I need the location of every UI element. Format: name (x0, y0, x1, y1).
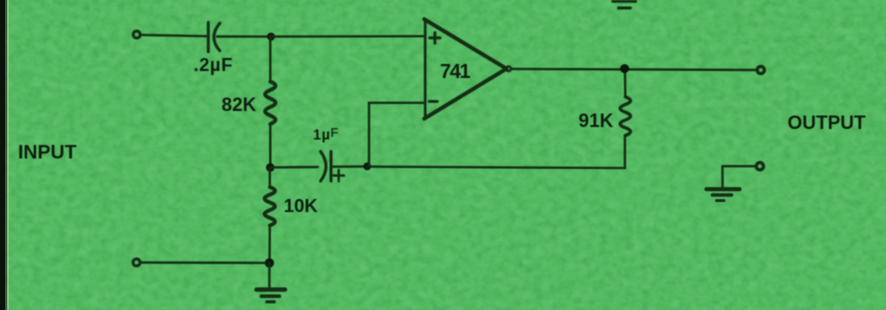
svg-text:.2µF: .2µF (194, 54, 233, 75)
svg-text:10K: 10K (284, 195, 319, 216)
resistor R3 10K (265, 187, 276, 226)
ground symbol GND3 (bottom) (257, 290, 286, 302)
capacitor C1 .2uF (208, 23, 220, 52)
scan edge strip (0, 0, 8, 310)
svg-text:91K: 91K (579, 111, 614, 132)
resistor R1 82K (265, 82, 276, 125)
plus sign (noninverting input) (430, 33, 440, 43)
svg-text:741: 741 (440, 61, 470, 83)
op-amp U1 741 (slant edges) (424, 19, 506, 119)
node B junction dot (266, 163, 275, 172)
capacitor C2 1uF (polarized) (321, 152, 331, 182)
wire op-amp output to output terminal (511, 69, 757, 70)
svg-text:OUTPUT: OUTPUT (788, 113, 867, 134)
ground terminal circle (right) (756, 163, 763, 170)
wire J3 to node E (141, 261, 265, 264)
node D junction dot (620, 64, 629, 73)
minus sign (inverting input) (429, 100, 437, 103)
wire R2 top to node D (624, 69, 627, 97)
wire node C to R2 bottom (feedback) (367, 136, 625, 169)
svg-text:82K: 82K (222, 95, 257, 116)
op-amp U1 741 (left edge) (424, 20, 427, 119)
output terminal J2 (757, 66, 764, 73)
wire node A to op-amp + input (271, 35, 424, 38)
wire input to C1 (141, 35, 207, 36)
node C junction dot (363, 163, 371, 171)
resistor R2 91K (620, 97, 631, 136)
input terminal J3 (bottom) (133, 259, 140, 266)
wire C2 to node C (332, 165, 363, 168)
op-amp output tip circle (506, 66, 511, 71)
wire node B to C2 (270, 166, 318, 169)
wire node E to ground (268, 263, 270, 289)
node E junction dot (265, 258, 274, 267)
input terminal J1 (top) (133, 31, 140, 38)
wire node B down to R3 (269, 167, 271, 187)
svg-text:INPUT: INPUT (18, 141, 77, 163)
wire node C up to op-amp - input (369, 103, 424, 167)
ground symbol GND1 (right) (707, 189, 740, 200)
wire node A down to R1 (269, 37, 271, 82)
svg-text:1µF: 1µF (313, 125, 339, 144)
wire C1 to node A (217, 35, 267, 37)
wire R1 to node B (269, 124, 271, 167)
wire R3 to node E (268, 226, 271, 263)
ground symbol GND2 (top, partial) (613, 1, 636, 8)
plus sign of C2 (334, 170, 345, 181)
ground terminal wire (right) (723, 166, 757, 188)
node A junction dot (267, 33, 275, 41)
